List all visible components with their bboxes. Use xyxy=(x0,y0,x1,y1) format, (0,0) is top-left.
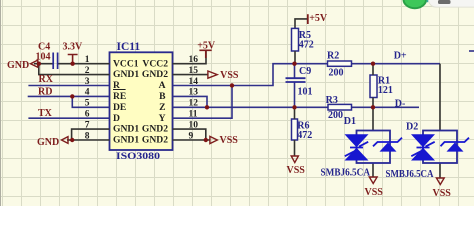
wire net A pin14 xyxy=(173,64,295,86)
junction pin9/pin10 VSS node xyxy=(204,138,208,142)
pin numbers left xyxy=(85,55,90,141)
svg-text:IC11: IC11 xyxy=(117,41,141,53)
wire net Z pin12 xyxy=(173,106,329,108)
power VSS arrow R6 xyxy=(291,156,298,163)
svg-text:Z: Z xyxy=(159,102,165,113)
svg-text:VSS: VSS xyxy=(365,187,384,198)
wire R6 stems xyxy=(294,107,296,156)
svg-text:D-: D- xyxy=(395,99,406,110)
svg-text:VCC2: VCC2 xyxy=(142,58,168,69)
svg-text:472: 472 xyxy=(297,130,312,141)
svg-text:VCC1: VCC1 xyxy=(113,58,139,69)
svg-text:2: 2 xyxy=(85,66,90,76)
svg-text:+5V: +5V xyxy=(309,13,328,24)
junction A/Y node xyxy=(230,83,234,87)
wire RD pin4 xyxy=(28,95,110,97)
pin numbers right xyxy=(189,55,199,141)
power VSS arrow D2 xyxy=(436,178,444,185)
svg-text:GND1: GND1 xyxy=(113,124,139,135)
svg-text:5: 5 xyxy=(85,99,90,109)
junction R2/R1 D+ node xyxy=(371,62,375,66)
wire D2 bottom stem xyxy=(439,163,441,178)
svg-text:6: 6 xyxy=(85,110,90,120)
wire pin16 to +5V xyxy=(173,51,207,64)
wire pin2 GND1 branch xyxy=(39,64,110,75)
power VSS arrow pin9 xyxy=(210,136,217,143)
svg-text:200: 200 xyxy=(328,110,343,121)
svg-text:3: 3 xyxy=(85,77,90,87)
wire TX pin6 xyxy=(28,117,109,119)
wire net Y pin11 xyxy=(173,86,233,119)
svg-text:Y: Y xyxy=(159,113,166,124)
power +5V (R5 top) xyxy=(295,19,307,29)
wire net B pin13 xyxy=(173,96,208,107)
svg-text:472: 472 xyxy=(299,40,314,51)
svg-text:D+: D+ xyxy=(394,51,407,62)
svg-text:ISO3080: ISO3080 xyxy=(116,152,160,162)
wire net D+ xyxy=(373,63,440,65)
junction C9/R6/Z node xyxy=(292,105,296,109)
svg-text:RE: RE xyxy=(113,91,126,102)
svg-text:SMBJ6.5CA: SMBJ6.5CA xyxy=(321,167,371,178)
svg-text:VSS: VSS xyxy=(433,188,452,199)
svg-text:B: B xyxy=(159,91,166,102)
overlay green button xyxy=(428,0,474,8)
junction RD/RE/DE node xyxy=(70,94,74,98)
svg-text:GND1: GND1 xyxy=(113,69,139,80)
svg-text:7: 7 xyxy=(85,120,90,130)
wire right edge stub xyxy=(469,50,474,52)
svg-text:+5V: +5V xyxy=(197,41,216,52)
svg-text:4: 4 xyxy=(85,88,90,98)
power VSS arrow D1 xyxy=(369,177,377,184)
svg-text:SMBJ6.5CA: SMBJ6.5CA xyxy=(386,169,435,180)
svg-text:R3: R3 xyxy=(326,95,338,106)
pin names inside IC xyxy=(113,58,168,145)
junction 3.3V node xyxy=(70,62,74,66)
overlay white pill xyxy=(438,0,451,4)
TVS diode D2 xyxy=(411,131,469,164)
wire net D- xyxy=(373,106,419,108)
svg-text:GND1: GND1 xyxy=(113,135,139,146)
junction B/Z node xyxy=(205,105,209,109)
resistor R1 xyxy=(370,75,377,98)
wire pin9 to VSS xyxy=(173,139,210,141)
svg-text:3.3V: 3.3V xyxy=(63,42,84,53)
svg-text:GND2: GND2 xyxy=(142,124,168,135)
svg-text:8: 8 xyxy=(85,131,90,141)
svg-text:VSS: VSS xyxy=(220,70,239,81)
power 3.3V xyxy=(68,55,78,64)
svg-text:1: 1 xyxy=(85,55,90,65)
RE overline xyxy=(113,89,126,91)
TVS diode D1 xyxy=(345,131,403,164)
svg-text:RD: RD xyxy=(38,87,52,98)
svg-text:GND: GND xyxy=(37,137,59,148)
svg-text:A: A xyxy=(159,80,166,91)
wire pin15 to VSS xyxy=(173,74,208,76)
wire pin10 branch xyxy=(173,129,206,140)
wire DE pin5 branch xyxy=(72,96,109,107)
svg-text:RX: RX xyxy=(39,74,54,85)
junction C4/GND node xyxy=(37,62,41,66)
resistor R2 xyxy=(295,63,374,65)
svg-text:GND2: GND2 xyxy=(142,135,168,146)
power VSS arrow pin15 xyxy=(208,71,217,78)
junction R5/C9/A node xyxy=(292,62,296,66)
resistor R6 xyxy=(292,119,298,140)
svg-text:D1: D1 xyxy=(344,116,356,127)
IC U11 body xyxy=(110,52,173,150)
svg-text:121: 121 xyxy=(378,85,393,96)
wire R5 bottom xyxy=(294,51,296,64)
capacitor C9 xyxy=(294,64,296,108)
svg-text:GND2: GND2 xyxy=(142,69,168,80)
resistor R3 xyxy=(352,106,374,108)
svg-text:101: 101 xyxy=(298,86,313,97)
svg-text:D: D xyxy=(113,113,120,124)
wire D+ drop to D2 xyxy=(439,64,441,131)
resistor R5 xyxy=(292,28,299,51)
svg-text:C9: C9 xyxy=(299,66,311,77)
wire pin8 GND xyxy=(67,139,110,141)
wire RX pin3 xyxy=(28,85,109,87)
svg-text:VSS: VSS xyxy=(287,165,306,176)
svg-text:D2: D2 xyxy=(406,121,418,132)
svg-text:GND: GND xyxy=(7,60,29,71)
svg-text:DE: DE xyxy=(113,102,126,113)
svg-text:200: 200 xyxy=(329,67,344,78)
wire pin7 branch xyxy=(72,129,110,140)
power +5V (IC) xyxy=(199,50,211,58)
svg-text:VSS: VSS xyxy=(220,135,239,146)
wire pin1 VCC1 row xyxy=(34,63,110,65)
svg-text:R2: R2 xyxy=(327,50,339,61)
junction GND/pin8 node xyxy=(70,138,74,142)
wire D1 feed xyxy=(372,107,374,177)
svg-text:TX: TX xyxy=(38,108,53,119)
capacitor C4 xyxy=(53,53,57,70)
junction R3/R1/D1 D- node xyxy=(371,105,375,109)
